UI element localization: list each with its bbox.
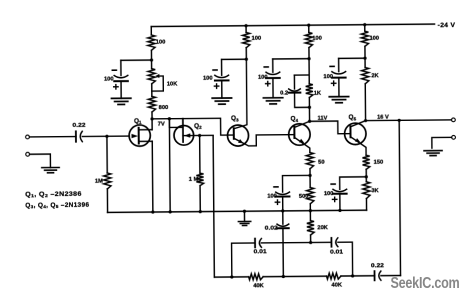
svg-text:2K: 2K — [371, 73, 379, 79]
svg-text:3K: 3K — [371, 188, 379, 194]
svg-text:100: 100 — [323, 74, 333, 80]
svg-text:0.22: 0.22 — [371, 263, 384, 269]
svg-text:150: 150 — [374, 160, 384, 166]
svg-text:20K: 20K — [317, 225, 328, 231]
svg-text:100: 100 — [312, 36, 322, 42]
svg-text:500: 500 — [299, 194, 309, 200]
svg-text:1K: 1K — [314, 91, 322, 97]
svg-text:100: 100 — [258, 75, 268, 81]
svg-text:100: 100 — [267, 194, 277, 200]
svg-text:100: 100 — [252, 36, 262, 42]
svg-text:-24 V: -24 V — [438, 22, 456, 29]
svg-text:7V: 7V — [158, 121, 165, 127]
svg-text:800: 800 — [159, 105, 169, 111]
svg-text:0.01: 0.01 — [254, 249, 267, 255]
svg-text:100: 100 — [203, 76, 213, 82]
svg-text:SeekIC.com: SeekIC.com — [391, 275, 460, 292]
svg-text:40K: 40K — [331, 283, 342, 289]
svg-text:1M: 1M — [95, 179, 103, 185]
svg-text:10K: 10K — [167, 82, 178, 88]
svg-text:0.02: 0.02 — [265, 226, 278, 232]
svg-text:0.2: 0.2 — [280, 91, 288, 97]
svg-text:50: 50 — [318, 159, 324, 165]
svg-text:0.22: 0.22 — [72, 123, 85, 129]
svg-text:100: 100 — [104, 77, 114, 83]
svg-text:100: 100 — [156, 40, 166, 46]
svg-text:40K: 40K — [253, 283, 264, 289]
svg-text:100: 100 — [369, 36, 379, 42]
svg-text:1 M: 1 M — [189, 177, 199, 183]
svg-text:11V: 11V — [318, 115, 328, 121]
svg-text:0.01: 0.01 — [330, 249, 343, 255]
svg-text:100: 100 — [324, 191, 334, 197]
svg-text:16 V: 16 V — [377, 115, 389, 121]
